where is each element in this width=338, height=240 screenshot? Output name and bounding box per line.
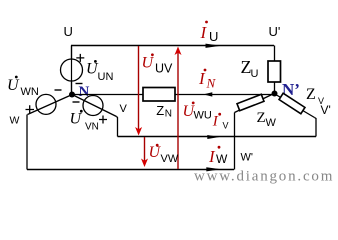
wire N left [72, 94, 143, 96]
current arrow I_V [207, 135, 219, 139]
impedance Z_W branch [235, 94, 275, 113]
label U_VN [70, 110, 99, 133]
label W [10, 115, 20, 127]
svg-text:VN: VN [85, 121, 99, 132]
voltage arrow U_WU [175, 47, 182, 170]
label W' [241, 152, 253, 164]
source U_WN circle [36, 94, 56, 114]
minus U_WN [55, 89, 62, 91]
wire V' vertical [315, 118, 317, 137]
label Z_N [156, 103, 172, 119]
label Z_U [241, 57, 259, 80]
svg-text:U: U [7, 77, 20, 94]
current arrow I_N [203, 92, 212, 96]
svg-text:N: N [206, 76, 217, 91]
svg-text:WU: WU [194, 109, 212, 121]
plus U_UN [76, 54, 84, 62]
label V [120, 103, 128, 115]
wire W bottom [27, 169, 234, 171]
wire W vertical [26, 115, 28, 170]
label U_WU [183, 102, 212, 122]
svg-text:U: U [142, 55, 155, 72]
label U_VW [149, 144, 179, 165]
svg-text:U: U [70, 111, 83, 128]
label I_U [200, 21, 219, 44]
label V' [321, 103, 331, 117]
wire U source vertical [71, 46, 73, 93]
node N' [272, 91, 278, 97]
watermark www.diangon.com [194, 169, 334, 185]
svg-text:U: U [209, 29, 218, 44]
label I_N [198, 69, 217, 91]
plus U_WN [26, 105, 35, 113]
label U_UN [86, 60, 113, 83]
impedance Z_V branch [274, 93, 315, 117]
label I_W [208, 146, 228, 166]
current arrow I_W [206, 167, 221, 171]
plus U_VN [99, 116, 107, 124]
source U_VN circle [83, 96, 103, 116]
label Z_W [257, 110, 277, 129]
svg-text:WN: WN [21, 86, 39, 98]
svg-text:V': V' [321, 103, 331, 117]
impedance Z_U box [268, 61, 281, 82]
label U [64, 24, 73, 39]
svg-text:Z: Z [156, 103, 164, 118]
svg-text:Z: Z [306, 86, 316, 103]
wire W' vertical [234, 113, 236, 170]
svg-text:UV: UV [155, 62, 173, 76]
svg-text:I: I [200, 23, 208, 42]
svg-text:Z: Z [257, 110, 266, 126]
label U' [269, 24, 281, 39]
svg-text:U': U' [269, 24, 281, 39]
svg-text:www.diangon.com: www.diangon.com [194, 169, 334, 185]
source U_UN circle [61, 59, 83, 81]
svg-text:V: V [120, 103, 128, 115]
label I_V [212, 113, 229, 131]
label N' [282, 80, 300, 99]
minus U_UN [76, 83, 83, 85]
svg-text:VW: VW [161, 153, 179, 165]
svg-text:N: N [165, 108, 172, 119]
wire W diagonal [28, 96, 71, 115]
wire V corner vertical [117, 117, 118, 137]
impedance Z_N box [143, 88, 175, 102]
svg-text:W: W [10, 115, 20, 127]
svg-text:W': W' [241, 152, 253, 164]
svg-text:U: U [251, 68, 259, 80]
svg-text:UN: UN [98, 71, 114, 83]
minus U_VN [73, 101, 80, 103]
svg-text:W: W [216, 152, 228, 166]
svg-text:I: I [208, 147, 216, 166]
svg-text:W: W [266, 117, 277, 129]
svg-text:V: V [223, 121, 229, 131]
svg-text:U: U [64, 24, 73, 39]
current arrow I_U [206, 44, 222, 48]
label U_WN [7, 76, 39, 98]
voltage arrow U_UV [135, 46, 142, 136]
svg-text:I: I [212, 114, 219, 130]
wire V diagonal [74, 96, 117, 117]
label N [79, 84, 90, 100]
voltage arrow U_VW [141, 137, 148, 167]
label Z_V [306, 86, 324, 106]
svg-text:I: I [198, 69, 206, 88]
wire U' vertical [274, 46, 276, 93]
wire N right [175, 94, 274, 96]
label U_UV [142, 53, 174, 75]
wire V bottom [118, 136, 317, 138]
wire U top [71, 45, 274, 47]
node N [69, 92, 75, 98]
